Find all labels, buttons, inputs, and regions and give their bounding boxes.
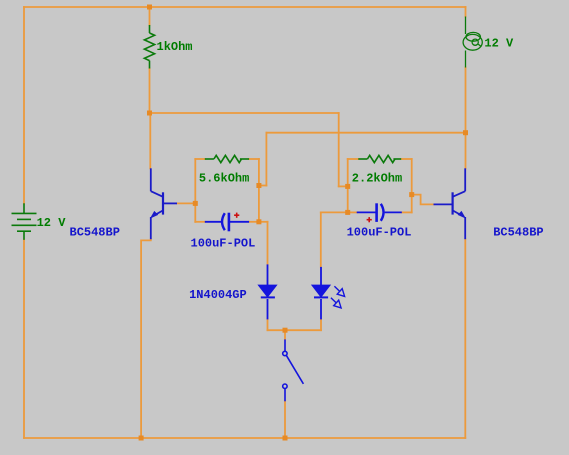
wire node to Q1 collector [149, 113, 151, 168]
wire cross A vertical [338, 113, 340, 186]
resistor R2 5.6kOhm [205, 155, 249, 162]
resistor R3 2.2kOhm [358, 155, 401, 162]
wire left LED jog [259, 221, 268, 223]
wire Q2 base jog [412, 195, 434, 205]
capacitor C2 100uF-POL [357, 203, 402, 222]
capacitor C1 100uF-POL [205, 213, 249, 232]
wire cross B jog [259, 185, 267, 187]
wire cross B horizontal [266, 132, 465, 134]
node right loop left mid [345, 184, 350, 189]
wire C1 left dash [195, 221, 205, 223]
D2 emission arrow lower [331, 298, 341, 308]
battery V1 12V [12, 203, 37, 240]
wire right loop top right [401, 158, 412, 160]
svg-text:2.2kOhm: 2.2kOhm [352, 171, 402, 185]
node at R1 bottom / cross A [147, 111, 152, 116]
node bottom rail left [139, 436, 144, 441]
transistor Q1 BC548BP [151, 168, 177, 239]
wire C1 right dash [249, 221, 259, 223]
wire right loop left vertical [347, 159, 349, 212]
D2 triangle [312, 285, 330, 297]
diode D1 1N4004GP [261, 264, 275, 319]
svg-text:12 V: 12 V [37, 216, 67, 230]
node at R1 top [147, 5, 152, 10]
wire left loop top left [195, 158, 205, 160]
wire right rail lower [464, 239, 466, 438]
svg-text:BC548BP: BC548BP [70, 226, 120, 240]
D2 emission arrow upper [334, 286, 344, 296]
wire Q1 emitter jog [141, 239, 151, 438]
wire left rail upper [23, 7, 25, 203]
node Q1 base [193, 201, 198, 206]
node LED bottom center [283, 328, 288, 333]
transistor Q2 BC548BP [434, 168, 466, 239]
wire right loop top left [348, 158, 359, 160]
LED D2 [314, 267, 328, 320]
wire C2 left dash [348, 211, 357, 213]
node right loop cap row [345, 210, 350, 215]
wire right LED top lead [320, 212, 322, 267]
wire switch top lead [284, 330, 286, 339]
wire left loop right vertical [258, 159, 260, 222]
node bottom rail switch [283, 436, 288, 441]
wire C2 right dash [402, 211, 412, 213]
Q2 emitter arrow [458, 211, 466, 219]
wire right loop right vertical [411, 159, 413, 212]
wire R1 bottom lead [149, 69, 151, 114]
wire top rail [24, 6, 466, 8]
wire left rail lower [23, 240, 25, 438]
C1 plus sign [234, 213, 239, 218]
wire R1 top lead [149, 7, 151, 25]
svg-text:1N4004GP: 1N4004GP [189, 288, 247, 302]
svg-text:100uF-POL: 100uF-POL [191, 236, 256, 250]
C2 plus sign [367, 217, 372, 222]
node Q2 base [409, 192, 414, 197]
node left loop right mid [256, 183, 261, 188]
Q1 emitter arrow [150, 211, 158, 219]
wire right rail mid [465, 68, 467, 169]
wire switch bottom lead [284, 401, 286, 438]
wire cross A jog [339, 185, 348, 187]
node left loop cap row [256, 219, 261, 224]
svg-text:1kOhm: 1kOhm [157, 40, 193, 54]
lamp X1 12V [463, 17, 482, 68]
svg-text:100uF-POL: 100uF-POL [347, 226, 412, 240]
switch S1 [283, 339, 304, 401]
wire right LED bottom lead [320, 319, 322, 330]
wire left LED top lead [267, 222, 269, 265]
resistor R1 1kOhm [144, 25, 154, 69]
wire cross A horizontal [150, 112, 339, 114]
wire LED bottom bar [268, 329, 322, 331]
svg-text:12 V: 12 V [484, 37, 514, 51]
wire Q1 base lead orange [177, 202, 195, 204]
wire cross B vertical [265, 133, 267, 186]
wire left LED bottom lead [267, 319, 269, 330]
D1 triangle [258, 285, 276, 297]
wire left loop left vertical [194, 159, 196, 222]
wire left loop top right [249, 158, 259, 160]
svg-text:BC548BP: BC548BP [493, 226, 543, 240]
wire right LED jog [321, 211, 348, 213]
svg-text:5.6kOhm: 5.6kOhm [199, 171, 249, 185]
node cross B at right rail [463, 130, 468, 135]
wire right rail top stub [465, 7, 467, 17]
wire bottom rail [24, 437, 465, 439]
